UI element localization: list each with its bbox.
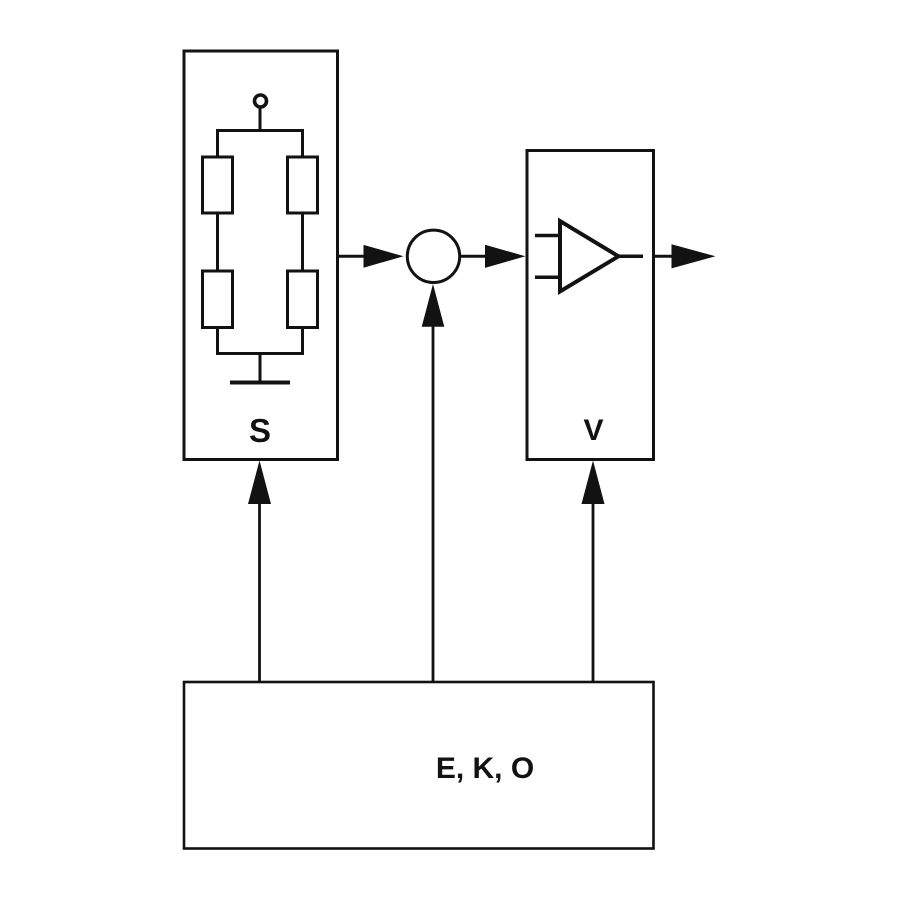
resistor R4 (bridge arm bottom-right) [288,271,318,328]
wire (bottom bus joining R3 and R4) [218,328,303,354]
arrowhead (into block S bottom) [248,461,271,505]
arrowhead (into summing junction) [364,245,404,268]
wire (E,K,O to summing junction) [432,324,435,682]
ground [230,381,290,385]
op-amp U1 (amplifier triangle) [560,221,619,292]
arrowhead (into amplifier block V) [485,245,526,268]
wire (E,K,O to block S) [258,501,261,682]
resistor R3 (bridge arm bottom-left) [203,271,233,328]
wire (top bus with corners down to resistors) [218,131,303,159]
arrowhead (into block V bottom) [582,461,605,505]
arrowhead (output arrow) [672,244,716,268]
resistor R1 (bridge arm top-left) [203,157,233,213]
arrowhead (into summing junction bottom) [422,284,445,327]
svg-text:V: V [583,414,603,447]
wire (left mid branch R1 to R3) [216,213,219,271]
block V (amplifier box outline) [527,151,654,460]
pin (amplifier output line) [619,255,644,259]
wire (S output to summing junction) [338,255,369,258]
pin (inverting input line) [535,276,560,280]
summing junction node [407,230,459,282]
wire (bottom bus to ground) [259,354,262,383]
svg-text:S: S [249,412,271,449]
block S (sensor box outline) [184,51,338,460]
wire (summing junction to amplifier block) [461,255,488,258]
terminal (supply terminal circle at bridge top) [255,95,267,107]
wire (right mid branch R2 to R4) [301,213,304,271]
block E,K,O (influence quantities box outline) [184,682,654,849]
resistor R2 (bridge arm top-right) [288,157,318,213]
wire (E,K,O to block V) [592,501,595,682]
svg-text:E, K, O: E, K, O [436,752,534,785]
wire (terminal to top bus) [259,108,262,132]
wire (V output) [654,255,677,258]
pin (non-inverting input line) [535,234,560,238]
